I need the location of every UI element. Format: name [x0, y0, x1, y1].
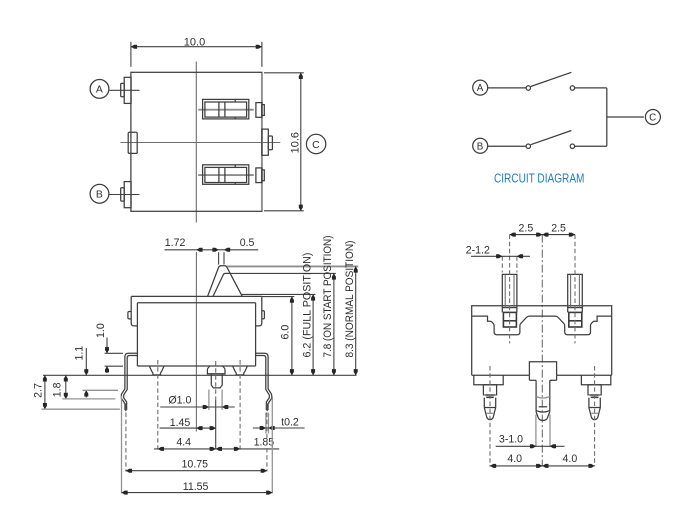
leg outer extension right [271, 396, 273, 493]
top view vertical centerline [195, 62, 197, 223]
contact B right [570, 144, 574, 148]
leg tip extension left [125, 413, 127, 472]
contact A right [570, 86, 574, 90]
svg-text:1.0: 1.0 [95, 323, 107, 338]
wire B to common [575, 145, 607, 147]
left front leg [483, 385, 496, 395]
svg-text:4.0: 4.0 [507, 453, 522, 465]
svg-text:Ø1.0: Ø1.0 [168, 394, 191, 406]
svg-text:2.5: 2.5 [551, 223, 566, 235]
upper slot axis [198, 109, 254, 111]
2.7 lower reference [42, 408, 120, 410]
dimension 8.3 (NORMAL POSITION) [355, 266, 357, 375]
dimension 1.1 [85, 348, 87, 375]
svg-text:10.6: 10.6 [289, 132, 301, 153]
dimension 1.8 [65, 375, 67, 399]
svg-text:1.1: 1.1 [73, 346, 85, 361]
left bottom tab [474, 375, 503, 385]
center block [529, 362, 556, 376]
center leg nose [536, 411, 550, 413]
node B balloon [473, 138, 488, 153]
dimension 4.4 / 1.85 [154, 448, 279, 450]
dimension 10.75 [126, 470, 267, 472]
svg-text:4.4: 4.4 [176, 437, 191, 449]
left leg outer [121, 353, 137, 403]
1.8 lower reference [62, 398, 115, 400]
balloon C [306, 134, 325, 153]
dimension Ø1.0 [208, 390, 210, 411]
dimension 11.55 [122, 492, 273, 494]
svg-text:6.2 (FULL POSITION): 6.2 (FULL POSITION) [301, 253, 313, 358]
left pin centerline [509, 235, 511, 344]
body inner top [137, 302, 255, 304]
node A balloon [473, 80, 488, 95]
top view horizontal centerline [120, 142, 280, 144]
terminal tab B [124, 182, 131, 208]
dimension 2.7 [44, 375, 46, 409]
wire B [488, 145, 526, 147]
svg-text:0.5: 0.5 [240, 237, 255, 249]
right front leg [588, 385, 601, 395]
dimension 10.0 [130, 42, 132, 67]
svg-text:2-1.2: 2-1.2 [466, 245, 490, 257]
mid right tab C [262, 129, 268, 155]
dimension 2-1.2 [501, 256, 503, 272]
flange top extension [262, 296, 295, 298]
right leg inner [256, 356, 270, 404]
flange right column [256, 296, 262, 326]
right leg tip [266, 403, 269, 411]
center leg width extensions [535, 415, 537, 447]
dimension 4.0 4.0 [490, 465, 595, 467]
right leg outer [256, 353, 272, 403]
svg-text:t0.2: t0.2 [281, 416, 299, 428]
svg-text:11.55: 11.55 [183, 481, 209, 493]
wire A to common [575, 87, 607, 89]
terminal tab A [124, 77, 131, 103]
svg-text:10.75: 10.75 [182, 459, 209, 471]
svg-text:1.72: 1.72 [165, 237, 186, 249]
dimension 1.72 / 0.5 line [165, 249, 259, 251]
svg-text:A: A [96, 85, 103, 96]
balloon B [90, 184, 109, 203]
lower right small tab [256, 168, 262, 183]
contact A left [526, 86, 530, 90]
svg-text:C: C [649, 113, 656, 124]
lever inner [213, 273, 230, 296]
right pin centerline [574, 235, 576, 344]
mid left tab [128, 132, 137, 153]
flange top [131, 295, 262, 297]
normal position ref line [227, 265, 358, 267]
svg-text:B: B [96, 190, 103, 201]
svg-text:1.45: 1.45 [170, 417, 191, 429]
lever outer [208, 266, 243, 297]
svg-text:4.0: 4.0 [563, 453, 578, 465]
svg-text:7.8 (ON START POSITION): 7.8 (ON START POSITION) [322, 236, 334, 358]
left leg tip [124, 403, 127, 411]
body inner left side [136, 303, 138, 366]
switch blade A [531, 72, 572, 86]
leader line B [110, 194, 140, 196]
svg-text:2.7: 2.7 [33, 383, 45, 398]
dimension 2.5 2.5 [510, 234, 575, 236]
dimension 3-1.0 [496, 445, 565, 447]
leader line A [110, 89, 140, 91]
right bottom tab [581, 375, 610, 385]
lever edge extension ticks [218, 252, 220, 264]
svg-text:A: A [477, 83, 484, 94]
1.1 lower reference [83, 389, 119, 391]
dimension 6.0 [291, 297, 293, 376]
left foot [149, 366, 164, 375]
wire A [488, 87, 526, 89]
dimension 1.0 [105, 352, 123, 354]
plunger center extension [215, 361, 217, 400]
svg-text:1.8: 1.8 [51, 382, 63, 397]
contact B left [526, 144, 530, 148]
side view centerline [195, 252, 197, 432]
top view body [131, 72, 262, 211]
dimension 1.45 [160, 427, 216, 429]
left foot center extension [157, 360, 159, 449]
front body outline [472, 306, 612, 376]
body bottom [137, 365, 255, 367]
dimension 7.8 (ON START POSITION) [333, 273, 335, 375]
lower slot [203, 165, 249, 185]
svg-text:2.5: 2.5 [519, 223, 534, 235]
dimension t0.2 [265, 413, 267, 434]
on start position ref line [230, 272, 336, 274]
node C balloon [645, 110, 660, 125]
top view body right edge (thick) [261, 73, 263, 211]
side tab left [128, 312, 131, 319]
upper right small tab [256, 103, 262, 118]
full position ref line [241, 293, 315, 295]
left leg centerline [489, 366, 491, 466]
front view centerline [541, 235, 543, 466]
dimension 10.6 [264, 72, 304, 74]
body inner right side [255, 303, 257, 366]
front top inner profile [472, 316, 612, 335]
plunger narrow part [211, 374, 222, 388]
lower slot axis [198, 174, 254, 176]
right leg centerline [594, 366, 596, 466]
svg-text:C: C [312, 140, 320, 151]
balloon A [90, 80, 109, 99]
svg-text:1.85: 1.85 [254, 437, 275, 449]
dimension 6.2 (FULL POSITION) [312, 294, 314, 375]
right pin [568, 274, 583, 312]
svg-text:3-1.0: 3-1.0 [499, 433, 523, 445]
svg-text:B: B [477, 141, 484, 152]
seating line [43, 374, 357, 376]
right foot [233, 366, 248, 375]
left pin [502, 274, 517, 312]
svg-text:6.0: 6.0 [280, 325, 292, 340]
upper slot [203, 99, 249, 119]
plunger wide part [207, 366, 225, 374]
svg-text:8.3 (NORMAL POSITION): 8.3 (NORMAL POSITION) [344, 241, 356, 358]
leg outer extension left [121, 396, 123, 493]
side tab right [262, 311, 265, 319]
svg-text:CIRCUIT DIAGRAM: CIRCUIT DIAGRAM [494, 170, 585, 185]
switch blade B [531, 131, 572, 145]
right foot center extension [239, 360, 241, 449]
center leg neck [535, 380, 537, 412]
common vertical wire [606, 88, 608, 146]
left leg inner [124, 356, 138, 404]
wire to C [607, 116, 644, 118]
flange left column [131, 296, 137, 326]
svg-text:10.0: 10.0 [184, 36, 205, 48]
leg tip extension right [266, 413, 268, 472]
